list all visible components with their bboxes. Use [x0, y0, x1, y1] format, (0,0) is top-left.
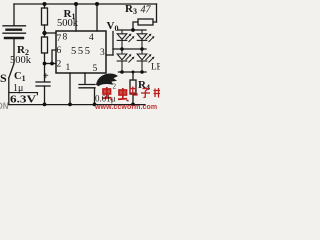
svg-text:8: 8	[63, 33, 68, 43]
svg-text:1μ: 1μ	[13, 83, 23, 94]
svg-text:2: 2	[113, 83, 117, 91]
svg-text:5: 5	[93, 64, 98, 74]
svg-text:6.3V: 6.3V	[10, 94, 36, 106]
svg-text:0.01μ: 0.01μ	[95, 94, 116, 104]
svg-text:6: 6	[57, 46, 62, 56]
svg-text:www.ccworm.com: www.ccworm.com	[94, 104, 157, 110]
svg-text:LED: LED	[151, 62, 160, 72]
svg-text:ON: ON	[0, 101, 9, 110]
svg-text:500k: 500k	[57, 18, 79, 29]
svg-text:500k: 500k	[10, 55, 32, 66]
svg-text:2: 2	[57, 60, 62, 70]
svg-text:47: 47	[141, 5, 152, 16]
svg-text:+: +	[43, 71, 49, 82]
svg-text:4: 4	[89, 33, 94, 43]
svg-text:3: 3	[100, 48, 105, 58]
svg-text:1: 1	[66, 63, 71, 73]
svg-text:S: S	[0, 71, 7, 85]
svg-text:555: 555	[71, 46, 90, 57]
svg-text:7: 7	[57, 34, 62, 44]
